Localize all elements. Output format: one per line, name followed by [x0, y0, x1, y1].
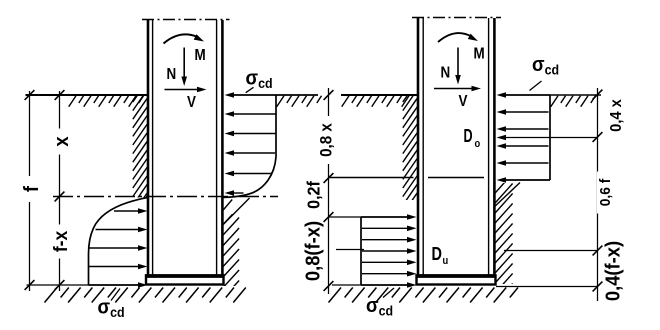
svg-text:f-x: f-x: [49, 230, 71, 252]
extension stub at D_u resultant level: [336, 249, 364, 251]
svg-text:f: f: [22, 185, 44, 192]
bottom extension line right of base plate: [496, 286, 598, 288]
svg-text:N: N: [167, 66, 177, 83]
right column right flange (inner+outer lines): [489, 18, 495, 275]
label 0,8x (rotated): [317, 116, 336, 164]
D_u pressure arrow 1: [362, 226, 417, 232]
svg-text:M: M: [195, 47, 206, 64]
D_u block bottom edge with arrow: [361, 282, 417, 288]
pressure arrow row upper-right 3: [225, 150, 276, 156]
label 0,6f (rotated): [597, 172, 614, 214]
pressure diagram bottom edge with arrow (left diagram): [89, 282, 148, 288]
label N (left): [167, 66, 177, 83]
right column base plate: [416, 275, 496, 284]
D_u pressure arrow 2: [362, 237, 417, 243]
D_o pressure arrow 4: [497, 160, 549, 166]
svg-text:D: D: [464, 127, 473, 147]
extension line at 0.8x level into right column: [329, 177, 485, 179]
D_o block bottom edge with arrow: [497, 177, 551, 183]
pressure arrow row upper-right 4: [225, 171, 272, 177]
label V (left): [187, 94, 196, 111]
svg-text:N: N: [441, 65, 451, 82]
leader line sigma_cd top (right diagram): [530, 81, 542, 91]
label 0,4x (rotated): [607, 99, 625, 132]
label M (right): [474, 46, 485, 63]
leader line sigma_cd bottom (right diagram): [383, 288, 394, 298]
pressure diagram right edge (left diagram): [275, 95, 277, 157]
svg-text:D: D: [432, 243, 442, 264]
ground line right of left diagram pressure block: [276, 94, 318, 96]
tick f top: [25, 90, 35, 100]
label sigma_cd bottom (left diagram): [98, 297, 125, 320]
label D_u: [432, 243, 449, 267]
wire centerline top of left column (dash-dot): [142, 19, 230, 21]
tick middle 0.8x: [324, 173, 334, 183]
D_o block right edge: [549, 95, 551, 180]
neutral-axis dash-dot line (left diagram): [53, 196, 278, 198]
ground hatch ticks left of right column: [342, 96, 409, 107]
svg-text:0,8(f-x): 0,8(f-x): [303, 221, 325, 281]
leader line sigma_cd bottom (left diagram): [111, 289, 120, 301]
tick middle 0.2f: [324, 212, 334, 222]
extension line at D_o... 0,4(f-x) top level: [504, 250, 598, 252]
tick right 0.4(f-x) top: [593, 246, 603, 256]
label sigma_cd top (left diagram): [246, 68, 273, 91]
tick middle bottom: [324, 281, 334, 291]
label N (right): [441, 65, 451, 82]
label 0,8(f-x) (rotated): [303, 221, 325, 281]
svg-text:0,4(f-x): 0,4(f-x): [603, 241, 625, 301]
shear force arrow V (right column): [434, 86, 481, 92]
pressure arrow row upper-right 1: [225, 111, 276, 117]
left column left flange (outer+inner lines): [148, 20, 153, 275]
D_u block left edge: [360, 217, 362, 285]
D_o block top edge with arrow at ground level: [497, 92, 551, 98]
dimension line f (vertical): [29, 91, 31, 291]
extension line to D_u top: [329, 216, 362, 218]
tick right top (ground): [593, 90, 603, 100]
D_u pressure arrow 3: [362, 248, 417, 254]
D_o pressure arrow 2: [497, 126, 549, 132]
right dimension line (vertical): [597, 88, 599, 301]
pressure diagram curve (left diagram upper right): [223, 157, 277, 197]
axial force arrow N (left column): [181, 48, 187, 87]
D_u block top edge with arrow: [361, 214, 417, 220]
middle dimension line (vertical): [328, 88, 330, 294]
ground hatch ticks left of left column: [69, 96, 144, 107]
moment arrow M (left column): [164, 34, 205, 43]
tick right bottom: [593, 282, 603, 292]
svg-text:V: V: [459, 93, 468, 110]
label f-x (rotated): [49, 225, 71, 259]
soil hatch band on right face of right column (below D_o): [495, 164, 520, 304]
ground hatch ticks right of D_o block: [551, 96, 596, 107]
wire centerline top of right column (dash-dot): [412, 17, 501, 19]
D_o pressure arrow 1: [497, 109, 549, 115]
pressure arrow row lower-left 2: [96, 227, 148, 233]
tick right 0.4x: [593, 132, 603, 142]
axial force arrow N (right column): [455, 48, 461, 85]
label x (rotated): [52, 129, 74, 155]
bottom soil hatch below right diagram base: [329, 288, 519, 303]
svg-text:u: u: [443, 255, 449, 267]
left column right flange (inner+outer lines): [217, 20, 223, 275]
label V (right): [459, 93, 468, 110]
ground line left of right column: [341, 94, 418, 96]
pressure arrow row lower-left 3: [90, 245, 148, 251]
D_u pressure arrow 4: [362, 260, 417, 266]
label 0,4(f-x) (rotated): [603, 241, 625, 301]
right column left flange (outer+inner lines): [418, 18, 423, 275]
label M (left): [195, 47, 206, 64]
label 0,2f (rotated): [304, 181, 324, 209]
dimension line x / f-x (vertical): [59, 91, 61, 291]
D_u pressure arrow 5: [362, 271, 417, 277]
left column base plate: [145, 275, 224, 284]
label sigma_cd bottom (right diagram): [366, 295, 393, 318]
svg-text:x: x: [52, 136, 74, 147]
svg-text:0,2f: 0,2f: [304, 181, 324, 209]
pressure arrow row lower-left 1: [114, 208, 148, 214]
pressure diagram top edge with arrow at sigma_cd level (left diagram right side): [225, 92, 277, 98]
bottom soil hatch below left diagram base: [45, 288, 246, 303]
D_o pressure arrow 3: [497, 143, 549, 149]
soil hatch band on left face of left column (above neutral axis): [133, 81, 148, 222]
svg-text:V: V: [187, 94, 196, 111]
soil hatch band on left face of right column: [403, 81, 418, 222]
svg-text:0,4 x: 0,4 x: [607, 99, 625, 132]
svg-text:o: o: [475, 138, 481, 150]
pressure arrow row upper-right 5: [225, 190, 244, 196]
svg-text:0,6 f: 0,6 f: [597, 179, 614, 207]
leader line sigma_cd top (left diagram): [246, 87, 254, 92]
tick x mid: [55, 192, 65, 202]
label sigma_cd top (right diagram): [532, 54, 559, 77]
label D_o: [464, 127, 481, 150]
moment arrow M (right column): [438, 33, 478, 42]
ground line right of D_o block: [550, 94, 601, 96]
D_o resultant arrow / 0,4x extension: [497, 135, 598, 141]
pressure arrow row upper-right 2: [225, 131, 276, 137]
tick middle top (ground): [324, 90, 334, 100]
soil hatch band on right face of left column (below neutral axis): [223, 197, 249, 299]
svg-text:M: M: [474, 46, 485, 63]
shear force arrow V (left column): [165, 87, 207, 93]
dimension extension line bottom (left diagram): [27, 284, 89, 286]
svg-text:0,8 x: 0,8 x: [318, 123, 336, 157]
tick x top: [55, 90, 65, 100]
extension line to D_u bottom: [332, 284, 361, 286]
pressure arrow row lower-left 4: [89, 264, 148, 270]
label f (rotated): [22, 176, 44, 202]
pressure diagram curve (left diagram lower left): [89, 197, 149, 285]
tick x bottom: [55, 280, 65, 290]
ground line left of left column: [26, 94, 149, 96]
tick f bottom: [25, 280, 35, 290]
ground hatch ticks between diagrams: [277, 96, 322, 107]
